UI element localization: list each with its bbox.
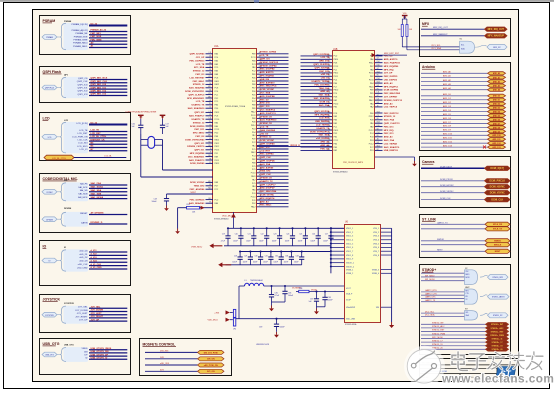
svg-text:FMC_NBL1/PA4: FMC_NBL1/PA4: [260, 190, 277, 193]
svg-text:PA4: PA4: [215, 121, 218, 124]
svg-text:PDR_ON VDD12_SMPS: PDR_ON VDD12_SMPS: [343, 162, 364, 164]
wire VLX to U6: [296, 285, 344, 287]
connector box IO expander: [40, 241, 131, 286]
svg-text:DCMI_CLK: DCMI_CLK: [491, 200, 503, 202]
svg-text:PA11: PA11: [251, 175, 255, 178]
svg-text:PB7: PB7: [370, 66, 374, 68]
svg-text:PC8: PC8: [215, 77, 219, 79]
svg-text:M12: M12: [208, 181, 211, 183]
svg-text:F6: F6: [209, 138, 211, 140]
svg-text:QSPI_CLK/PC7: QSPI_CLK/PC7: [260, 184, 277, 186]
svg-text:USB3320C-EZK: USB3320C-EZK: [256, 344, 270, 346]
harness STMOD I2C: [421, 268, 508, 285]
svg-text:VSSB_3: VSSB_3: [372, 269, 379, 271]
svg-text:PD2: PD2: [252, 203, 256, 205]
svg-text:PC2: PC2: [252, 101, 256, 103]
svg-text:SAI1_SDA/PB3: SAI1_SDA/PB3: [314, 97, 330, 100]
svg-text:PD10: PD10: [334, 103, 339, 105]
net flag +3V3: [214, 310, 233, 314]
svg-text:J9: J9: [210, 148, 212, 150]
svg-text:P14: P14: [209, 93, 212, 95]
svg-text:QSPI_CLK/PC9: QSPI_CLK/PC9: [188, 94, 205, 96]
svg-text:+3V3: +3V3: [214, 312, 220, 314]
svg-text:I2C1_SDA: I2C1_SDA: [194, 66, 205, 69]
svg-text:STMOD_12: STMOD_12: [260, 137, 272, 139]
svg-text:U1A: U1A: [214, 45, 219, 48]
svg-text:PD4: PD4: [252, 128, 256, 130]
svg-text:PB3: PB3: [334, 147, 338, 149]
svg-text:P14: P14: [377, 61, 380, 63]
svg-text:H8: H8: [377, 142, 379, 144]
svg-text:PC8: PC8: [370, 137, 374, 139]
svg-text:PB12: PB12: [215, 143, 220, 145]
svg-text:TIM4_CH2: TIM4_CH2: [319, 87, 330, 90]
svg-text:JOY_UP: JOY_UP: [196, 57, 205, 59]
svg-text:PB9: PB9: [370, 90, 374, 92]
svg-text:D0..15: D0..15: [91, 123, 98, 125]
svg-text:JOY_DOWN: JOY_DOWN: [91, 310, 104, 312]
svg-text:QSPI_IO1: QSPI_IO1: [194, 112, 205, 114]
svg-text:LCD_BL_CTRL: LCD_BL_CTRL: [52, 158, 67, 160]
svg-text:MFX_IRQ: MFX_IRQ: [384, 69, 394, 71]
svg-text:LCD_TE: LCD_TE: [196, 64, 205, 66]
svg-text:PA3: PA3: [215, 63, 218, 66]
svg-text:PB13: PB13: [215, 112, 220, 114]
svg-text:QSPI_IO1/PA8: QSPI_IO1/PA8: [260, 143, 275, 146]
svg-text:P14: P14: [377, 132, 380, 134]
svg-text:VSS_1: VSS_1: [373, 228, 379, 230]
svg-text:PB8: PB8: [252, 60, 256, 62]
svg-text:PC9: PC9: [215, 67, 219, 69]
connector box JOYSTICK: [40, 295, 131, 333]
svg-text:LCD_TE/PA8: LCD_TE/PA8: [384, 142, 398, 145]
svg-text:DCMI_VSYNC/PD1: DCMI_VSYNC/PD1: [185, 91, 205, 93]
svg-text:DFSDM1_D: DFSDM1_D: [91, 222, 103, 224]
svg-text:PC12: PC12: [369, 143, 374, 145]
svg-text:PA11: PA11: [369, 85, 373, 88]
svg-text:SAI1_FSA: SAI1_FSA: [384, 139, 395, 142]
svg-text:PC6: PC6: [215, 91, 219, 93]
svg-text:Camera: Camera: [422, 160, 435, 164]
svg-text:RX: RX: [466, 296, 468, 298]
svg-text:DCMI_VSYNC: DCMI_VSYNC: [190, 182, 205, 184]
svg-text:JP4: JP4: [233, 329, 236, 331]
svg-text:C20: C20: [235, 234, 238, 236]
svg-text:QSPI_BK1_IO0: QSPI_BK1_IO0: [91, 84, 107, 86]
svg-text:PSRAM: PSRAM: [43, 19, 56, 23]
svg-text:ARD_A3: ARD_A3: [320, 141, 330, 144]
svg-text:PD8: PD8: [334, 97, 338, 99]
svg-text:DFSDM: DFSDM: [46, 219, 53, 221]
Arduino digital wires ARD_D0..D13: [421, 93, 506, 149]
svg-text:PA8: PA8: [370, 68, 373, 71]
svg-text:DCMI_PIXCLK: DCMI_PIXCLK: [489, 181, 505, 183]
svg-text:USART2_TX: USART2_TX: [260, 180, 273, 183]
svg-text:PB6: PB6: [334, 83, 338, 85]
svg-text:FMC_NWE: FMC_NWE: [91, 39, 103, 41]
connector box STMOD+ expansion: [420, 265, 511, 355]
svg-text:SAI1_SDA/PC0: SAI1_SDA/PC0: [384, 146, 400, 149]
svg-text:I2C1_SCL: I2C1_SCL: [431, 45, 441, 47]
svg-text:d_IO_CLK: d_IO_CLK: [91, 264, 102, 266]
capacitor C38 VDDA: [317, 290, 334, 306]
svg-text:100nF: 100nF: [294, 262, 299, 264]
svg-text:VDD_USB: VDD_USB: [346, 319, 356, 321]
svg-text:PC10: PC10: [251, 173, 256, 175]
svg-text:LCD_TE: LCD_TE: [196, 101, 205, 103]
svg-text:ARD_D6: ARD_D6: [493, 118, 500, 121]
jumper JP4 VDD select: [233, 309, 344, 330]
svg-text:VSSB_2: VSSB_2: [346, 273, 353, 275]
svg-text:PC13: PC13: [215, 129, 220, 131]
svg-text:QSPI_CLK/PC3: QSPI_CLK/PC3: [384, 123, 401, 125]
svg-text:PC0: PC0: [334, 56, 338, 58]
svg-text:USB_OTG: USB_OTG: [64, 344, 74, 346]
svg-text:PA4: PA4: [215, 53, 218, 56]
svg-text:USART2_TX/PB8: USART2_TX/PB8: [312, 80, 330, 83]
svg-text:M12: M12: [208, 135, 211, 137]
svg-text:DCMI_VSYNC: DCMI_VSYNC: [260, 195, 275, 197]
svg-text:uSD_D0: uSD_D0: [321, 78, 330, 80]
svg-text:FMC_D2: FMC_D2: [196, 136, 206, 138]
svg-text:LCD_TE/PA7: LCD_TE/PA7: [316, 124, 330, 127]
svg-text:VDD1_8: VDD1_8: [346, 255, 353, 257]
svg-text:LQSPI/TP/QUADSPI/PB6a M/WR: LQSPI/TP/QUADSPI/PB6a M/WR: [125, 110, 157, 113]
svg-text:PC1: PC1: [334, 69, 338, 71]
svg-text:FMC_D11: FMC_D11: [319, 71, 330, 73]
svg-text:uSD_D0/PB5: uSD_D0/PB5: [316, 138, 330, 140]
svg-text:ARD_A3: ARD_A3: [320, 90, 330, 93]
svg-text:C3: C3: [209, 124, 211, 126]
svg-text:VDD1_2: VDD1_2: [346, 232, 353, 234]
ground C39: [274, 332, 279, 338]
svg-text:QSPI Flash: QSPI Flash: [45, 88, 54, 90]
svg-text:PB7: PB7: [252, 88, 256, 90]
svg-text:FMC_D11/PB7: FMC_D11/PB7: [314, 84, 329, 86]
svg-text:PD12: PD12: [369, 116, 374, 118]
svg-text:INT: INT: [465, 309, 468, 311]
svg-text:100nF: 100nF: [310, 241, 315, 243]
svg-text:FMC_NBL1: FMC_NBL1: [260, 205, 272, 207]
svg-text:PD6: PD6: [252, 91, 256, 93]
svg-text:PA9: PA9: [215, 155, 218, 158]
svg-text:B2: B2: [209, 128, 211, 130]
svg-text:LCD_RST/PA7: LCD_RST/PA7: [190, 76, 206, 79]
svg-text:USB_OTGFS_DP: USB_OTGFS_DP: [91, 354, 109, 356]
svg-text:STMOD_12: STMOD_12: [193, 122, 205, 124]
svg-text:PB8: PB8: [252, 105, 256, 107]
svg-text:VDD1_3: VDD1_3: [346, 236, 353, 238]
svg-text:PD8: PD8: [370, 120, 374, 122]
wire DCMI data bus: [421, 166, 510, 170]
svg-text:MFX: MFX: [422, 22, 430, 26]
svg-text:LCD_RST: LCD_RST: [319, 118, 330, 120]
svg-text:PSRAM_A[0:22]: PSRAM_A[0:22]: [72, 29, 88, 32]
svg-text:ARD_D3: ARD_D3: [493, 107, 500, 110]
svg-text:PC4: PC4: [370, 133, 374, 135]
svg-text:M12: M12: [377, 145, 380, 147]
power arrow VDD rail row2: [218, 262, 231, 267]
svg-text:VSS_8: VSS_8: [373, 255, 379, 257]
svg-text:PB13: PB13: [215, 163, 220, 165]
svg-text:QSPI_BK1_IO2: QSPI_BK1_IO2: [91, 91, 107, 93]
svg-text:ARD_D10/PB8: ARD_D10/PB8: [260, 95, 276, 98]
svg-text:C33: C33: [285, 256, 288, 258]
svg-text:STMOD_UART3: STMOD_UART3: [492, 296, 505, 299]
svg-text:PC4: PC4: [334, 93, 338, 95]
svg-text:F6: F6: [377, 88, 379, 90]
svg-text:PB8: PB8: [252, 84, 256, 86]
svg-text:PC5: PC5: [252, 149, 256, 151]
svg-text:PA12: PA12: [251, 206, 255, 209]
power flag VDD for I2C pull-ups: [402, 13, 408, 19]
svg-text:E5: E5: [377, 75, 379, 77]
svg-text:H8: H8: [209, 158, 211, 160]
svg-text:SAI: SAI: [64, 179, 68, 182]
svg-text:SAI1_SDA: SAI1_SDA: [91, 189, 102, 192]
svg-text:G7: G7: [209, 59, 211, 61]
svg-text:JOYSTICK: JOYSTICK: [45, 315, 55, 317]
svg-text:PA6: PA6: [252, 189, 255, 192]
svg-text:PD6: PD6: [252, 77, 256, 79]
svg-text:PB9: PB9: [252, 54, 256, 56]
svg-text:ARD_D13: ARD_D13: [492, 146, 500, 149]
svg-text:PC4: PC4: [252, 156, 256, 158]
svg-text:ARD_D1: ARD_D1: [493, 99, 500, 102]
svg-text:PD8: PD8: [252, 122, 256, 124]
svg-text:DP: DP: [84, 355, 88, 357]
svg-text:DFSDM: DFSDM: [64, 208, 71, 210]
svg-text:4.7uF: 4.7uF: [221, 241, 225, 243]
svg-text:PC8: PC8: [215, 88, 219, 90]
IC U1B STM32L4R9AII6 MCU port bank B: [301, 49, 403, 174]
wire DCMI_HSYNC: [421, 185, 510, 189]
svg-text:USB_OTGFS_DM: USB_OTGFS_DM: [91, 351, 109, 353]
svg-text:CODEC/DIGITAL MIC.: CODEC/DIGITAL MIC.: [43, 177, 79, 181]
svg-text:LCD_[0:15]: LCD_[0:15]: [76, 123, 87, 125]
svg-text:DSIHOST_CK: DSIHOST_CK: [91, 139, 106, 141]
svg-text:I2C1_SDA: I2C1_SDA: [431, 47, 441, 50]
svg-text:C39: C39: [259, 327, 262, 329]
svg-text:PD2: PD2: [252, 81, 256, 83]
svg-text:100nF: 100nF: [298, 241, 303, 243]
svg-text:I2C1_SDA/PC2: I2C1_SDA/PC2: [260, 109, 276, 112]
svg-text:L11: L11: [209, 111, 212, 113]
power arrow VDD_MCU rail row1: [209, 243, 222, 248]
svg-text:J9: J9: [210, 152, 212, 154]
svg-text:SCL: SCL: [461, 45, 464, 47]
svg-text:USB_DM: USB_DM: [260, 79, 269, 81]
svg-text:ARD_D4: ARD_D4: [493, 111, 500, 114]
svg-text:C32: C32: [275, 256, 278, 258]
svg-text:PC8: PC8: [334, 113, 338, 115]
svg-text:QSPI_IO1/PC4: QSPI_IO1/PC4: [314, 110, 330, 113]
svg-text:LCD: LCD: [64, 120, 69, 122]
svg-text:100nF: 100nF: [280, 327, 286, 329]
svg-text:FMC_D11: FMC_D11: [384, 126, 395, 128]
svg-text:DCMI_HSYNC: DCMI_HSYNC: [490, 187, 506, 189]
svg-text:PB4: PB4: [370, 83, 374, 85]
svg-text:PC1: PC1: [215, 94, 219, 96]
svg-text:100nF: 100nF: [323, 241, 328, 243]
svg-text:100nF: 100nF: [246, 241, 251, 243]
svg-text:PSRAM: PSRAM: [64, 20, 72, 23]
wire VDD12_SMPS U1A to U1B: [257, 145, 332, 147]
svg-text:DCMI_D5: DCMI_D5: [320, 101, 330, 103]
svg-text:PA12: PA12: [215, 83, 219, 86]
svg-text:STM32L4R9AII6_TFBGA: STM32L4R9AII6_TFBGA: [225, 105, 246, 108]
svg-text:SAI_FS: SAI_FS: [80, 182, 88, 185]
svg-text:RESET: RESET: [80, 213, 88, 215]
svg-text:uSD_D0: uSD_D0: [260, 133, 269, 135]
svg-text:UART2_TX: UART2_TX: [437, 221, 448, 224]
svg-text:VDD1_1: VDD1_1: [346, 228, 353, 230]
svg-text:B2: B2: [377, 128, 379, 130]
svg-text:QSPI_CLK/PD3: QSPI_CLK/PD3: [313, 64, 330, 66]
svg-text:DCMI_D5/PA9: DCMI_D5/PA9: [190, 162, 205, 165]
svg-text:DCMI_D[0:7]: DCMI_D[0:7]: [490, 168, 504, 170]
svg-text:JOY_LEFT: JOY_LEFT: [91, 313, 103, 315]
svg-text:ARD_D2: ARD_D2: [493, 103, 500, 106]
svg-text:QSPI_IO1: QSPI_IO1: [194, 143, 205, 145]
svg-text:DCMI_VSYNC: DCMI_VSYNC: [490, 193, 505, 195]
svg-text:PC5: PC5: [215, 101, 219, 103]
svg-text:USART2_TX: USART2_TX: [192, 104, 205, 107]
svg-text:ARD_A3: ARD_A3: [384, 102, 394, 105]
svg-text:QSPI_BK1_CLK: QSPI_BK1_CLK: [91, 81, 108, 83]
svg-text:SAI1_SDA: SAI1_SDA: [318, 94, 329, 97]
svg-text:FMC_D2/PD5: FMC_D2/PD5: [384, 76, 398, 78]
svg-text:d_IO2: d_IO2: [91, 254, 98, 256]
wire MFX_IRQ_OUT: [421, 27, 507, 31]
svg-text:PC3: PC3: [252, 64, 256, 66]
svg-text:SAI1_SDB: SAI1_SDB: [91, 192, 102, 195]
svg-text:FMC_D11: FMC_D11: [384, 133, 395, 135]
svg-text:LCD_RST: LCD_RST: [91, 133, 102, 135]
svg-text:STMOD_SPI2: STMOD_SPI2: [492, 277, 503, 279]
svg-text:100nF: 100nF: [232, 262, 237, 264]
svg-text:PB10: PB10: [369, 97, 374, 99]
svg-text:N13: N13: [377, 82, 380, 84]
svg-text:B2: B2: [209, 184, 211, 186]
svg-text:PD9: PD9: [252, 139, 256, 141]
svg-text:uSD_D0: uSD_D0: [321, 74, 330, 76]
svg-text:100nF: 100nF: [285, 241, 290, 243]
wire DCMI_VSYNC: [421, 191, 510, 195]
svg-text:VSS_6: VSS_6: [373, 247, 379, 249]
crystal X2 32kHz cluster with load capacitors C16 C17: [125, 110, 213, 177]
svg-text:RTS: RTS: [466, 290, 469, 292]
svg-text:VDD_MCU: VDD_MCU: [208, 320, 219, 322]
svg-text:VLXP: VLXP: [346, 300, 352, 302]
svg-text:DCMI_VSYNC/PC5: DCMI_VSYNC/PC5: [310, 131, 330, 133]
svg-text:FMC_D2: FMC_D2: [320, 148, 330, 150]
wire NRST: [421, 249, 510, 253]
svg-text:B2: B2: [377, 149, 379, 151]
svg-text:QSPI_IO2: QSPI_IO2: [78, 91, 89, 93]
svg-text:USB_OTGFS_ID: USB_OTGFS_ID: [91, 358, 108, 360]
connector box MFX (multi function expander): [420, 19, 511, 57]
svg-text:MFX_WAKEUP: MFX_WAKEUP: [488, 35, 505, 38]
svg-text:CTS: CTS: [466, 293, 469, 295]
svg-text:SWCLK: SWCLK: [494, 245, 502, 247]
ground VDDA caps: [314, 309, 319, 315]
svg-text:PA11: PA11: [215, 80, 219, 83]
svg-text:MFX_IRQ/PC1: MFX_IRQ/PC1: [384, 86, 399, 88]
svg-text:LCD_BL: LCD_BL: [104, 156, 112, 158]
svg-text:PB0: PB0: [370, 113, 374, 115]
svg-text:H8: H8: [209, 100, 211, 102]
svg-text:uSD_D3: uSD_D3: [79, 261, 88, 263]
svg-text:LCD_TE/PC9: LCD_TE/PC9: [384, 107, 398, 109]
svg-text:uSD_CLK: uSD_CLK: [78, 264, 88, 266]
svg-text:D4: D4: [209, 56, 211, 58]
svg-text:ARD_A3: ARD_A3: [384, 136, 394, 139]
svg-text:PD3: PD3: [334, 133, 338, 135]
svg-text:PD0: PD0: [215, 133, 219, 135]
wire SWCLK: [421, 243, 510, 247]
svg-text:USB_OTG: USB_OTG: [43, 342, 60, 346]
svg-text:NRST: NRST: [495, 251, 501, 253]
svg-text:LCD: LCD: [43, 116, 51, 120]
svg-text:QSPI_CLK: QSPI_CLK: [260, 174, 271, 176]
capacitor C35 SMPS output: [269, 285, 280, 306]
svg-text:C29: C29: [244, 256, 247, 258]
title block: [420, 359, 519, 382]
svg-text:PC10: PC10: [251, 196, 256, 198]
svg-text:uSD_D2: uSD_D2: [79, 257, 88, 259]
svg-text:JOY_UP: JOY_UP: [384, 73, 393, 75]
svg-text:JOY_LEFT: JOY_LEFT: [77, 313, 88, 315]
svg-text:PA5: PA5: [334, 122, 337, 125]
resistor R31 I2C pull-up: [402, 25, 413, 50]
svg-text:C25: C25: [299, 234, 302, 236]
svg-text:PD4: PD4: [252, 132, 256, 134]
svg-text:QSPI_IO1/PA3: QSPI_IO1/PA3: [190, 53, 205, 56]
svg-text:STLK_TX: STLK_TX: [493, 229, 503, 231]
svg-text:Arduino: Arduino: [422, 65, 435, 69]
svg-text:VSSB_4: VSSB_4: [372, 273, 379, 275]
svg-text:LCD_TE: LCD_TE: [260, 55, 269, 57]
svg-text:PSRAM_NWE: PSRAM_NWE: [73, 39, 88, 42]
svg-text:VDDIO_1: VDDIO_1: [346, 262, 354, 264]
VDD decoupling capacitor bank row 1 (C19-C27): [221, 227, 344, 246]
svg-text:C27: C27: [325, 234, 328, 236]
svg-text:PA15: PA15: [215, 138, 219, 141]
svg-text:R28: R28: [299, 288, 302, 290]
svg-text:PA1: PA1: [252, 144, 255, 147]
svg-text:DSI_3V3_POW: DSI_3V3_POW: [204, 352, 218, 354]
svg-text:PC2: PC2: [215, 189, 219, 191]
svg-text:LCD_TE: LCD_TE: [321, 57, 330, 59]
svg-text:ARD_A3/PA10: ARD_A3/PA10: [260, 81, 275, 84]
svg-text:L11: L11: [209, 52, 212, 54]
svg-text:DCMI_VSYNC: DCMI_VSYNC: [260, 89, 275, 91]
svg-text:FMC_D3: FMC_D3: [196, 74, 206, 76]
svg-text:100nF: 100nF: [233, 241, 238, 243]
svg-text:PD11: PD11: [369, 73, 374, 75]
svg-text:SAI1_FSA/PD11: SAI1_FSA/PD11: [384, 62, 401, 65]
svg-text:ARD_D10: ARD_D10: [492, 134, 500, 137]
svg-text:C19: C19: [222, 234, 225, 236]
VDD decoupling capacitor bank row 2 (C28-C34): [226, 250, 331, 264]
connector box LCD / DSI display: [40, 113, 131, 161]
svg-text:VDD12_D: VDD12_D: [290, 145, 300, 147]
svg-text:PSRAM_NBL1: PSRAM_NBL1: [73, 45, 88, 48]
svg-text:JOY_UP/PB7: JOY_UP/PB7: [384, 97, 398, 99]
svg-text:PSRAM_NE: PSRAM_NE: [75, 32, 88, 35]
svg-text:D4: D4: [209, 83, 211, 85]
